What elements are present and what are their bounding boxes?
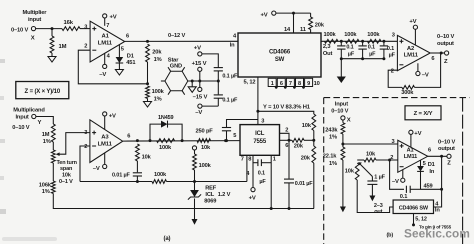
note to pin 9 bbox=[419, 224, 452, 229]
pin 11 label bbox=[300, 27, 306, 33]
resistor 100k ladder 3 bbox=[367, 32, 381, 43]
svg-text:3: 3 bbox=[261, 118, 264, 124]
ground below star wire bbox=[188, 81, 196, 92]
svg-text:(b): (b) bbox=[387, 233, 394, 239]
wire ladder bbox=[321, 40, 397, 43]
svg-text:100k: 100k bbox=[344, 32, 357, 38]
svg-text:0.1: 0.1 bbox=[400, 194, 407, 200]
wire 300k to output bbox=[415, 53, 441, 87]
svg-text:Out: Out bbox=[323, 51, 333, 57]
capacitor 0.01uF series bbox=[112, 161, 142, 182]
svg-text:A2: A2 bbox=[407, 46, 415, 52]
ground below 100k bbox=[144, 99, 152, 108]
IC ICL7555 bbox=[240, 125, 280, 156]
svg-text:+V: +V bbox=[414, 131, 421, 137]
ground below 1M bbox=[48, 53, 56, 62]
capacitor 250pF bbox=[196, 120, 258, 143]
potentiometer 10k (b) bbox=[345, 163, 359, 180]
pin 4 In label bbox=[230, 34, 237, 49]
resistor 10k (A3 out) bbox=[136, 144, 152, 161]
svg-text:10k: 10k bbox=[366, 152, 376, 158]
svg-text:8: 8 bbox=[298, 81, 301, 87]
resistor 106k 1% bbox=[39, 181, 55, 195]
wire 22.1k to ground bbox=[342, 160, 344, 207]
wire 1M to pot bbox=[52, 142, 54, 150]
svg-text:1%: 1% bbox=[42, 189, 50, 195]
wire ladder caps bottom bbox=[340, 57, 386, 60]
pot wiper (b) bbox=[358, 162, 372, 176]
svg-text:output: output bbox=[437, 41, 454, 47]
wire +V to pins 14/11 bbox=[276, 12, 311, 33]
svg-text:20k: 20k bbox=[152, 49, 162, 55]
svg-text:–V: –V bbox=[93, 166, 100, 172]
svg-text:A3: A3 bbox=[101, 135, 109, 141]
label multiplier input bbox=[23, 10, 48, 23]
pin 5 label ICL bbox=[233, 133, 236, 139]
pin box 6 bbox=[277, 78, 285, 87]
svg-text:0–12 V: 0–12 V bbox=[168, 33, 185, 39]
diode 1N459 loop bbox=[150, 115, 182, 140]
svg-text:Seekic.com: Seekic.com bbox=[404, 226, 470, 240]
svg-text:Input: Input bbox=[16, 115, 29, 121]
svg-text:6: 6 bbox=[127, 133, 130, 139]
svg-text:–V: –V bbox=[422, 73, 429, 79]
label Y = 10V 83.3% H1 bbox=[263, 104, 311, 110]
svg-text:3: 3 bbox=[84, 24, 87, 30]
svg-text:6: 6 bbox=[280, 81, 283, 87]
IC CD4066 SW (b) bbox=[393, 200, 433, 214]
ground arrow 1uF bbox=[369, 196, 375, 202]
resistor 20k (pin6) bbox=[292, 138, 314, 149]
svg-text:14: 14 bbox=[284, 27, 291, 33]
resistor 100k ladder 2 bbox=[344, 32, 359, 43]
svg-text:2: 2 bbox=[84, 144, 87, 150]
figure label (b) bbox=[387, 233, 394, 239]
ground below D1 451 bbox=[115, 70, 123, 76]
svg-text:µF: µF bbox=[389, 53, 396, 59]
svg-text:Z = (X × Y)/10: Z = (X × Y)/10 bbox=[25, 89, 61, 95]
svg-text:10k: 10k bbox=[142, 154, 152, 160]
svg-text:1.2 V: 1.2 V bbox=[218, 192, 231, 198]
pin -V of A3 bbox=[93, 153, 107, 172]
svg-text:output: output bbox=[438, 146, 455, 152]
bottom scan smudge bbox=[2, 237, 57, 241]
svg-text:6: 6 bbox=[285, 143, 288, 149]
terminal X input bbox=[11, 27, 36, 42]
wire pot to 106k bbox=[52, 163, 54, 181]
node X divider bbox=[341, 134, 344, 147]
pins 5,12 label bbox=[244, 80, 256, 86]
capacitor 0.1uF ladder 2 bbox=[358, 41, 376, 58]
svg-text:Y: Y bbox=[38, 120, 42, 126]
svg-text:LM11: LM11 bbox=[98, 41, 113, 47]
figure label (a) bbox=[164, 236, 171, 242]
resistor 20k (pin11) bbox=[309, 17, 325, 33]
pin 3 label A1 bbox=[84, 24, 87, 30]
svg-text:Z: Z bbox=[447, 161, 451, 167]
wire ICL pin1 to bus bbox=[271, 155, 276, 208]
svg-text:10k: 10k bbox=[62, 172, 72, 178]
svg-text:243k: 243k bbox=[325, 127, 338, 133]
svg-text:5: 5 bbox=[233, 133, 236, 139]
svg-text:451: 451 bbox=[126, 60, 135, 66]
pin labels 2-3 out bbox=[374, 203, 383, 215]
svg-text:+15 V: +15 V bbox=[192, 61, 207, 67]
svg-text:6: 6 bbox=[428, 148, 431, 154]
svg-text:459: 459 bbox=[424, 184, 433, 190]
pin 14 label bbox=[284, 27, 291, 33]
svg-text:106k: 106k bbox=[39, 182, 52, 188]
svg-text:7555: 7555 bbox=[253, 139, 267, 145]
wire 20k to bus bbox=[313, 163, 315, 209]
svg-text:250 pF: 250 pF bbox=[196, 128, 214, 134]
resistor 100k ladder 1 bbox=[324, 32, 339, 43]
wire pot to bus (b) bbox=[357, 180, 393, 213]
svg-text:span: span bbox=[60, 166, 73, 172]
svg-text:100k: 100k bbox=[199, 163, 212, 169]
svg-text:GND: GND bbox=[170, 64, 182, 70]
node main wire 0.01 junction bbox=[224, 139, 227, 142]
svg-text:CD4066 SW: CD4066 SW bbox=[399, 205, 429, 211]
svg-text:ICL: ICL bbox=[205, 192, 214, 198]
wire ICL pin6 bbox=[280, 139, 293, 149]
svg-text:3: 3 bbox=[392, 32, 395, 38]
svg-text:LM11: LM11 bbox=[404, 154, 417, 160]
svg-text:0.1: 0.1 bbox=[346, 45, 353, 51]
svg-text:–15 V: –15 V bbox=[193, 95, 208, 101]
ground arrow below zener bbox=[192, 199, 198, 225]
pin box 8 bbox=[296, 78, 304, 87]
pin 2 label A1 bbox=[84, 44, 87, 50]
svg-text:1%: 1% bbox=[329, 134, 337, 140]
svg-text:0.1: 0.1 bbox=[368, 45, 375, 51]
terminal -15V bbox=[193, 81, 208, 101]
labels A2 pins bbox=[391, 32, 435, 74]
svg-text:100k: 100k bbox=[159, 145, 172, 151]
wire 106k to bottom bus bbox=[53, 194, 314, 209]
wire 16k to A1 pin3 bbox=[80, 28, 90, 30]
svg-text:–V: –V bbox=[392, 179, 399, 185]
pin +V of A2 bbox=[409, 19, 417, 45]
svg-text:Y = 10 V 83.3% H1: Y = 10 V 83.3% H1 bbox=[263, 104, 311, 110]
wire A3 output bbox=[123, 140, 240, 143]
svg-text:Multiplicand: Multiplicand bbox=[13, 107, 45, 113]
pin box 1 bbox=[268, 78, 276, 87]
diode D1 451 bbox=[116, 45, 136, 70]
resistor 20k (divider bottom) bbox=[301, 146, 316, 163]
svg-text:5: 5 bbox=[121, 47, 124, 53]
svg-text:D1: D1 bbox=[127, 54, 134, 60]
svg-text:100k: 100k bbox=[324, 32, 337, 38]
node bus 0.01uF bbox=[288, 207, 291, 210]
svg-text:LM11: LM11 bbox=[98, 141, 113, 147]
svg-text:+V: +V bbox=[261, 13, 268, 19]
svg-text:CD4066: CD4066 bbox=[269, 49, 291, 55]
terminal X (b) bbox=[341, 116, 351, 124]
svg-text:µF: µF bbox=[259, 179, 266, 185]
scan artifact marks bbox=[0, 59, 6, 214]
terminal +15V bbox=[192, 61, 207, 81]
svg-text:µF: µF bbox=[348, 51, 355, 57]
svg-text:0–1 V: 0–1 V bbox=[59, 179, 73, 185]
wire pin2 node (b) bbox=[357, 159, 364, 161]
svg-text:16k: 16k bbox=[64, 20, 74, 26]
terminal -V (supply) bbox=[195, 104, 218, 116]
node divider mid bbox=[312, 131, 315, 147]
capacitor 0.1uF (b) bbox=[400, 186, 421, 201]
wire A2 feedback bbox=[388, 70, 402, 87]
svg-text:100k: 100k bbox=[152, 89, 165, 95]
wire Y to 10k divider bbox=[258, 111, 314, 114]
svg-text:A1: A1 bbox=[102, 34, 110, 40]
node bus pin1 bbox=[270, 207, 273, 210]
svg-text:A1: A1 bbox=[407, 148, 414, 154]
svg-text:300k: 300k bbox=[401, 90, 414, 96]
wire A1b feedback bbox=[390, 160, 404, 189]
svg-text:1: 1 bbox=[273, 156, 276, 162]
wire X input to 16k bbox=[36, 27, 62, 30]
resistor 1M bbox=[50, 29, 67, 53]
svg-text:0–10 V: 0–10 V bbox=[438, 139, 455, 145]
svg-text:3: 3 bbox=[84, 130, 87, 136]
wire feedback to output node bbox=[421, 188, 444, 191]
svg-text:22.1k: 22.1k bbox=[323, 153, 337, 159]
wire Y input down bbox=[36, 117, 53, 125]
svg-text:Input: Input bbox=[335, 101, 348, 107]
svg-text:1: 1 bbox=[271, 81, 274, 87]
pin 5 label A1 bbox=[121, 47, 124, 53]
svg-text:0–10 V: 0–10 V bbox=[12, 125, 29, 131]
svg-text:1%: 1% bbox=[329, 161, 337, 167]
svg-text:Multiplier: Multiplier bbox=[23, 10, 48, 16]
pin +V of A1b bbox=[409, 130, 422, 147]
wire star gnd to caps bbox=[188, 80, 220, 83]
capacitor 0.1uF (ICL) bbox=[253, 159, 271, 185]
op-amp A2 LM11 bbox=[397, 35, 430, 70]
labels A1b pins bbox=[392, 139, 432, 167]
capacitor 0.1uF ladder 1 bbox=[337, 41, 355, 58]
pin 3 label ICL bbox=[261, 118, 264, 124]
op-amp A3 LM11 bbox=[90, 120, 123, 163]
svg-text:(a): (a) bbox=[164, 236, 171, 242]
svg-text:7: 7 bbox=[289, 81, 292, 87]
svg-text:REF: REF bbox=[205, 185, 217, 191]
svg-text:–V: –V bbox=[99, 72, 106, 78]
pin 6 label A1 bbox=[126, 33, 129, 39]
wire A1 pin2 feedback bbox=[78, 50, 147, 84]
wire A1 output 0-12V bbox=[125, 33, 238, 43]
svg-text:X: X bbox=[347, 117, 351, 123]
svg-text:10: 10 bbox=[314, 81, 320, 87]
op-amp A1 LM11 (a) bbox=[90, 21, 125, 62]
svg-text:Z = X/Y: Z = X/Y bbox=[414, 111, 433, 117]
wire 100k to zener node bbox=[193, 170, 196, 183]
capacitor 0.1uF (-V) bbox=[214, 81, 238, 106]
ground ladder bbox=[337, 59, 346, 83]
svg-text:20k: 20k bbox=[294, 144, 304, 150]
svg-text:8069: 8069 bbox=[204, 198, 216, 204]
capacitor 1uF (b) bbox=[367, 174, 385, 195]
resistor 243k 1% bbox=[325, 120, 345, 140]
capacitor 0.1uF ladder 3 bbox=[380, 41, 396, 58]
wire 20k to junction bbox=[147, 62, 149, 84]
pins 5,12 (b) bbox=[412, 214, 427, 227]
labels A3 bbox=[84, 130, 130, 150]
svg-text:ICL: ICL bbox=[255, 131, 265, 137]
wire A3 pin2 down bbox=[80, 146, 90, 182]
svg-text:6: 6 bbox=[126, 33, 129, 39]
svg-text:5, 12: 5, 12 bbox=[244, 80, 256, 86]
svg-text:0.1: 0.1 bbox=[258, 171, 265, 177]
formula box Z=X/Y bbox=[405, 106, 441, 120]
svg-text:9: 9 bbox=[307, 81, 310, 87]
svg-text:2: 2 bbox=[391, 69, 394, 75]
label input X (b) bbox=[331, 101, 348, 114]
svg-text:input: input bbox=[28, 17, 41, 23]
capacitor 0.1uF (+V) bbox=[214, 64, 238, 82]
pin box 9 bbox=[305, 78, 313, 87]
svg-text:0.01 µF: 0.01 µF bbox=[112, 172, 131, 178]
svg-text:10k: 10k bbox=[201, 145, 211, 151]
resistor 100k 1% bbox=[146, 86, 165, 102]
svg-text:+V: +V bbox=[249, 196, 256, 202]
resistor 22.1k 1% bbox=[323, 147, 345, 167]
node loop right bbox=[181, 139, 184, 142]
svg-text:2: 2 bbox=[84, 44, 87, 50]
svg-text:10k: 10k bbox=[345, 168, 355, 174]
pin -V of A1b bbox=[392, 170, 405, 185]
svg-text:100k: 100k bbox=[367, 32, 380, 38]
svg-text:LM11: LM11 bbox=[404, 53, 419, 59]
label star gnd bbox=[168, 58, 182, 70]
resistor 16k bbox=[62, 20, 80, 31]
svg-text:+V: +V bbox=[409, 19, 416, 25]
svg-text:1 µF: 1 µF bbox=[374, 174, 385, 180]
pin labels 4 In bbox=[435, 201, 440, 213]
svg-text:0–10 V: 0–10 V bbox=[437, 34, 454, 40]
svg-text:3: 3 bbox=[392, 139, 395, 145]
pins 2,3 Out label bbox=[323, 44, 333, 57]
diode D1 1N459 (b) bbox=[417, 160, 435, 189]
terminal +V (supply) bbox=[194, 46, 202, 56]
star ground hexagon bbox=[161, 67, 188, 95]
svg-text:5, 12: 5, 12 bbox=[415, 217, 427, 223]
svg-text:11: 11 bbox=[300, 27, 306, 33]
svg-text:0–10 V: 0–10 V bbox=[331, 109, 348, 115]
svg-text:+V: +V bbox=[194, 46, 201, 52]
wire A1b output bbox=[428, 139, 456, 166]
resistor 20k 1% bbox=[146, 44, 163, 63]
svg-text:0.01 µF: 0.01 µF bbox=[295, 181, 314, 187]
wire X node to A1b pin3 bbox=[343, 143, 398, 145]
svg-text:7: 7 bbox=[241, 156, 244, 162]
svg-text:2: 2 bbox=[390, 155, 393, 161]
wire A2 output bbox=[430, 34, 454, 65]
wire pins 5,12 to ICL pin3 bbox=[257, 77, 259, 125]
terminal +V (CD4066) bbox=[261, 11, 276, 19]
svg-text:–V: –V bbox=[195, 110, 202, 116]
test terminal 0-1V bbox=[192, 146, 196, 154]
svg-text:0.1 µF: 0.1 µF bbox=[222, 73, 238, 79]
resistor 100k (loop) bbox=[157, 139, 175, 152]
svg-text:20k: 20k bbox=[315, 22, 325, 28]
pin -V of A2 bbox=[416, 63, 429, 78]
resistor 1M 1% (multiplicand) bbox=[42, 124, 55, 145]
pin +V of A3 bbox=[103, 112, 116, 130]
junction dots below pin boxes bbox=[275, 86, 305, 89]
pot wiper to A3 pin3 bbox=[56, 133, 90, 156]
capacitor 0.01uF (pin6) bbox=[284, 140, 313, 208]
resistor 10k horizontal (b) bbox=[364, 152, 376, 162]
svg-text:6: 6 bbox=[431, 56, 434, 62]
wire output to CD4066b In bbox=[434, 156, 442, 207]
svg-text:+V: +V bbox=[110, 15, 117, 21]
svg-text:out: out bbox=[374, 209, 382, 215]
svg-text:1%: 1% bbox=[154, 57, 162, 63]
wire bottom feedback bbox=[80, 180, 152, 183]
pin box 7 bbox=[286, 78, 294, 87]
wire ICL pin4-8 to +V bbox=[246, 155, 256, 201]
wire feedback to pin7 ICL bbox=[167, 181, 247, 183]
terminal Y input bbox=[12, 114, 41, 130]
label multiplicand input bbox=[13, 107, 45, 120]
svg-text:7: 7 bbox=[106, 23, 109, 29]
svg-text:D1: D1 bbox=[428, 162, 435, 168]
node A3 out 10k tap bbox=[136, 139, 139, 142]
svg-text:100k: 100k bbox=[154, 172, 167, 178]
svg-text:1%: 1% bbox=[43, 139, 51, 145]
op-amp A1 LM11 (b) bbox=[398, 140, 428, 172]
svg-text:1%: 1% bbox=[154, 96, 162, 102]
potentiometer ten-turn 10k bbox=[51, 150, 77, 185]
svg-text:In: In bbox=[429, 169, 434, 175]
svg-text:0.1 µF: 0.1 µF bbox=[222, 97, 238, 103]
svg-text:SW: SW bbox=[275, 57, 285, 63]
formula box Z=(X x Y)/10 bbox=[16, 82, 69, 99]
svg-text:8: 8 bbox=[248, 156, 251, 162]
svg-text:2,3: 2,3 bbox=[323, 44, 330, 50]
svg-text:X: X bbox=[31, 36, 35, 42]
svg-text:0.1: 0.1 bbox=[387, 46, 394, 52]
svg-text:1N459: 1N459 bbox=[158, 115, 174, 121]
svg-text:1M: 1M bbox=[42, 132, 50, 138]
ground arrow 22.1k bbox=[340, 207, 346, 213]
resistor 100k (vertical) bbox=[193, 154, 212, 170]
pin 7 +V of A1 bbox=[103, 14, 117, 29]
svg-text:2: 2 bbox=[285, 128, 288, 134]
watermark bbox=[404, 226, 470, 240]
svg-text:0–10 V: 0–10 V bbox=[11, 28, 28, 34]
svg-text:In: In bbox=[230, 42, 235, 48]
resistor 100k (feedback) bbox=[152, 172, 167, 183]
resistor 300k bbox=[401, 86, 414, 96]
wire +V to cap bbox=[202, 54, 218, 64]
svg-text:Z: Z bbox=[444, 59, 448, 65]
wire ICL pin2 bbox=[280, 128, 290, 141]
node Y bbox=[256, 110, 259, 113]
resistor 10k (to ICL) bbox=[197, 139, 211, 151]
dashed border of sub-circuit b bbox=[324, 98, 470, 244]
wire 10k to pin2 bbox=[376, 155, 398, 162]
wire ICL pin7 bbox=[241, 155, 247, 181]
svg-text:+V: +V bbox=[109, 113, 116, 119]
node A1 feedback / 20k-100k junction bbox=[146, 82, 149, 85]
svg-text:1M: 1M bbox=[59, 44, 67, 50]
svg-text:µF: µF bbox=[369, 51, 376, 57]
zener REF ICL 1.2V 8069 bbox=[188, 182, 231, 205]
svg-text:20k: 20k bbox=[301, 155, 311, 161]
svg-text:In: In bbox=[435, 208, 440, 214]
